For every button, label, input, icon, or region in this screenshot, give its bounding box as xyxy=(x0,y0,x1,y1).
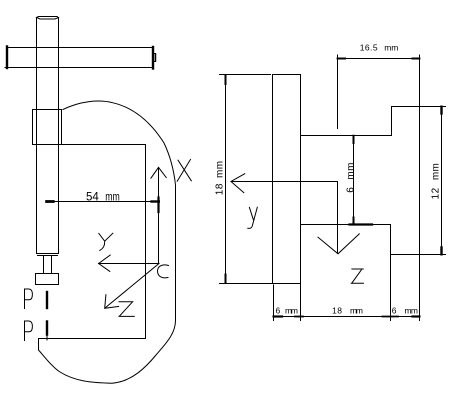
force centerline mark upper xyxy=(46,292,48,308)
clamp body inner bottom edge xyxy=(39,338,146,340)
part upper right tab xyxy=(391,107,446,255)
X axis arrow xyxy=(158,168,160,264)
svg-text:mm: mm xyxy=(285,305,298,315)
svg-text:mm: mm xyxy=(384,42,398,52)
part lower block xyxy=(301,225,391,321)
Y axis arrow xyxy=(99,263,159,265)
svg-text:6mm: 6mm xyxy=(346,162,357,193)
svg-text:18: 18 xyxy=(332,305,342,315)
rod top cap xyxy=(37,17,59,20)
dimension 54 mm right tick xyxy=(152,200,159,202)
Z axis arrow right figure xyxy=(337,182,339,254)
dimension 6 mm vertical line xyxy=(353,136,355,225)
part left column xyxy=(220,75,301,321)
label P upper xyxy=(25,289,33,309)
clamp body inner right edge xyxy=(145,145,147,339)
svg-text:6: 6 xyxy=(276,305,281,315)
dimension 18 mm vertical line xyxy=(220,74,271,76)
svg-text:mm: mm xyxy=(105,191,120,203)
part web top edge xyxy=(301,135,392,137)
label Z left figure xyxy=(119,302,134,317)
svg-text:mm: mm xyxy=(405,305,419,315)
screw tip stem xyxy=(44,256,52,274)
label P lower xyxy=(25,321,33,341)
screw rod xyxy=(37,18,59,254)
label Y xyxy=(99,233,113,250)
svg-text:mm: mm xyxy=(350,305,363,315)
svg-text:6: 6 xyxy=(392,305,397,315)
force centerline mark lower xyxy=(46,322,48,335)
swivel pad xyxy=(36,274,59,285)
svg-text:54: 54 xyxy=(86,192,99,204)
rod bottom cap xyxy=(37,254,59,256)
dimension 54 mm left tick xyxy=(47,200,54,203)
svg-text:12mm: 12mm xyxy=(431,163,442,200)
Z axis arrow xyxy=(105,264,159,309)
svg-text:16.5: 16.5 xyxy=(360,42,378,52)
clamp body inner top edge xyxy=(62,144,146,146)
label X xyxy=(177,159,191,181)
bottom chained dimension line xyxy=(274,316,420,318)
dimension 54 mm line xyxy=(47,201,159,203)
part right edge with extensions xyxy=(419,55,421,321)
dimension 16.5 mm line xyxy=(338,58,420,60)
handle bar xyxy=(5,48,153,68)
clamp body outer contour xyxy=(39,101,176,383)
nut block xyxy=(33,110,62,145)
svg-text:18mm: 18mm xyxy=(214,161,225,196)
label y right figure xyxy=(248,207,257,228)
dimension 12 mm line xyxy=(441,107,443,255)
y axis arrow right figure xyxy=(231,181,338,183)
origin label C xyxy=(158,265,169,278)
label Z right figure xyxy=(351,269,363,283)
